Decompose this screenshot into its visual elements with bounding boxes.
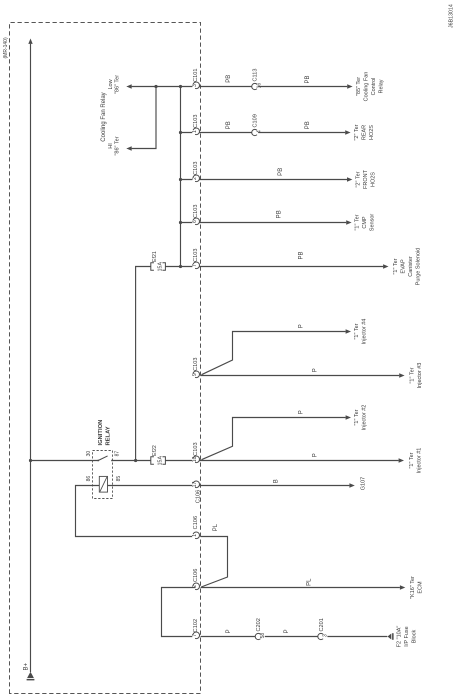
arrow to cooling fan control relay bbox=[347, 84, 352, 88]
wire branch to cooling fan relays / C101 pin 3 bbox=[132, 86, 253, 88]
svg-text:P: P bbox=[313, 368, 319, 372]
svg-text:Purge Solenoid: Purge Solenoid bbox=[415, 248, 421, 286]
svg-text:Ef21: Ef21 bbox=[152, 251, 158, 262]
svg-text:7: 7 bbox=[192, 634, 198, 637]
svg-text:HO2S: HO2S bbox=[370, 172, 376, 187]
wire fuse Ef22 to connector C103 pin 10 bbox=[165, 460, 398, 462]
svg-text:Low: Low bbox=[108, 79, 114, 89]
junction dot bus bbox=[179, 265, 182, 268]
svg-text:6: 6 bbox=[192, 220, 198, 223]
svg-text:C103: C103 bbox=[193, 205, 199, 218]
arrow to CMP sensor bbox=[346, 220, 351, 224]
svg-text:P: P bbox=[226, 629, 232, 633]
svg-text:IGNITION: IGNITION bbox=[98, 420, 104, 446]
svg-text:58: 58 bbox=[260, 633, 266, 639]
wire C102 pin7 down bbox=[201, 636, 388, 638]
svg-text:G107: G107 bbox=[360, 477, 366, 490]
svg-text:"1" Ter: "1" Ter bbox=[393, 258, 399, 274]
svg-text:"1" Ter: "1" Ter bbox=[355, 214, 361, 230]
svg-text:2: 2 bbox=[192, 177, 198, 180]
inline connector C202 pin 58 bbox=[261, 634, 265, 638]
svg-text:3: 3 bbox=[323, 634, 329, 637]
svg-text:C103: C103 bbox=[193, 115, 199, 128]
arrow to rear HO2S bbox=[345, 130, 350, 134]
svg-text:"85" Ter: "85" Ter bbox=[356, 77, 362, 96]
svg-text:1: 1 bbox=[192, 130, 198, 133]
connector C101 pin 3 at boundary bbox=[192, 81, 200, 89]
fuse Ef21 15A bbox=[151, 263, 154, 270]
relay coil symbol bbox=[99, 476, 107, 492]
junction dot bus bbox=[179, 131, 182, 134]
svg-text:C106: C106 bbox=[193, 516, 199, 529]
svg-text:Block: Block bbox=[412, 630, 418, 644]
svg-text:"2" Ter: "2" Ter bbox=[355, 171, 361, 187]
svg-text:85: 85 bbox=[116, 476, 122, 482]
wire branch C103 pin 1 bbox=[181, 132, 253, 134]
svg-text:17: 17 bbox=[192, 482, 198, 488]
svg-text:C106: C106 bbox=[193, 569, 199, 582]
wire link C106 pin2 to C102 pin7 (inside boundary) bbox=[162, 588, 196, 637]
svg-text:REAR: REAR bbox=[361, 125, 367, 140]
svg-text:PB: PB bbox=[277, 210, 283, 218]
svg-text:86: 86 bbox=[86, 476, 92, 482]
svg-text:HI: HI bbox=[108, 143, 114, 149]
wire to injector #3 bbox=[201, 375, 400, 377]
connector C106 pin 1 at boundary bbox=[192, 531, 200, 539]
svg-text:87: 87 bbox=[115, 451, 121, 457]
svg-text:Injector #1: Injector #1 bbox=[417, 448, 423, 474]
svg-text:PB: PB bbox=[226, 121, 232, 129]
svg-text:7: 7 bbox=[192, 264, 198, 267]
wire relay pin 87 to fuse Ef22 bbox=[112, 460, 151, 462]
svg-text:10: 10 bbox=[192, 456, 198, 462]
svg-text:EVAP: EVAP bbox=[400, 259, 406, 274]
svg-text:15A: 15A bbox=[157, 456, 163, 466]
arrow to ECM terminal K16 bbox=[400, 585, 405, 589]
svg-text:C202: C202 bbox=[256, 618, 262, 631]
svg-text:PB: PB bbox=[305, 75, 311, 83]
svg-text:"2" Ter: "2" Ter bbox=[354, 124, 360, 140]
wire spur to injector #2 bbox=[202, 418, 346, 460]
svg-text:C103: C103 bbox=[193, 358, 199, 371]
svg-text:FRONT: FRONT bbox=[363, 169, 369, 189]
svg-text:"86" Ter: "86" Ter bbox=[115, 75, 121, 94]
connector C103 pin 10 at boundary bbox=[192, 455, 200, 463]
arrow to Low "86" terminal bbox=[126, 84, 131, 88]
junction dot bus bbox=[179, 85, 182, 88]
inline connector C113 pin 16 bbox=[257, 84, 261, 88]
svg-text:15A: 15A bbox=[157, 262, 163, 272]
arrow to injector #3 bbox=[399, 373, 404, 377]
svg-text:30: 30 bbox=[86, 451, 92, 457]
svg-text:Ef22: Ef22 bbox=[152, 445, 158, 456]
svg-text:ECM: ECM bbox=[417, 581, 423, 594]
relay IGNITION RELAY dashed box bbox=[93, 451, 113, 499]
svg-text:Sensor: Sensor bbox=[370, 214, 376, 232]
inline connector C109 pin 4 bbox=[257, 130, 261, 134]
svg-text:C103: C103 bbox=[193, 442, 199, 455]
svg-text:P: P bbox=[299, 324, 305, 328]
svg-text:"86" Ter: "86" Ter bbox=[115, 136, 121, 155]
svg-text:PB: PB bbox=[305, 121, 311, 129]
svg-text:C102: C102 bbox=[193, 619, 199, 632]
junction dot at B+ rail bbox=[29, 459, 32, 462]
svg-text:PB: PB bbox=[278, 168, 284, 176]
svg-text:PL: PL bbox=[307, 578, 313, 586]
junction dot bus bbox=[179, 221, 182, 224]
svg-text:F2 "10A": F2 "10A" bbox=[397, 626, 403, 648]
svg-text:"1" Ter: "1" Ter bbox=[354, 323, 360, 339]
svg-text:Canister: Canister bbox=[408, 256, 414, 277]
wire branch C103 pin 2 bbox=[181, 179, 348, 181]
svg-text:P: P bbox=[313, 453, 319, 457]
wire B+ to ignition relay contact (pin 30) bbox=[31, 460, 99, 462]
svg-text:I/P Fuse: I/P Fuse bbox=[404, 626, 410, 646]
arrow to EVAP purge solenoid bbox=[383, 264, 388, 268]
wire below C113 bbox=[258, 86, 347, 88]
connector C103 pin 1 at boundary bbox=[192, 127, 200, 135]
svg-text:B: B bbox=[274, 479, 280, 483]
connector C102 pin 7 at boundary bbox=[192, 631, 200, 639]
svg-text:"K16" Ter: "K16" Ter bbox=[410, 576, 416, 599]
wire B+ horizontal rail bbox=[30, 44, 32, 672]
svg-text:B+: B+ bbox=[24, 662, 30, 670]
connector C103 pin 7 at boundary bbox=[192, 261, 200, 269]
connector C103 pin 6 at boundary bbox=[192, 217, 200, 225]
fuse Ef22 15A bbox=[151, 457, 154, 464]
connector C106 pin 2 at boundary bbox=[192, 582, 200, 590]
svg-text:(MR-140): (MR-140) bbox=[3, 37, 9, 58]
svg-text:9: 9 bbox=[192, 373, 198, 376]
svg-text:RELAY: RELAY bbox=[105, 426, 111, 445]
svg-text:Injector #4: Injector #4 bbox=[362, 319, 368, 345]
svg-text:Injector #2: Injector #2 bbox=[362, 405, 368, 431]
junction dot Ef21 feed link bbox=[134, 459, 137, 462]
arrow to front HO2S bbox=[347, 177, 352, 181]
arrow to HI "86" terminal bbox=[126, 146, 131, 150]
svg-text:C113: C113 bbox=[253, 69, 259, 82]
wire main PB bus (horizontal) bbox=[180, 87, 182, 267]
wire relay coil pin 85 to ground G107 bbox=[108, 485, 350, 487]
inline connector C201 pin 3 bbox=[324, 634, 328, 638]
svg-text:P: P bbox=[284, 629, 290, 633]
wire cooling fan relay HI branch link bbox=[132, 87, 156, 149]
wire branch C103 pin 6 bbox=[181, 222, 347, 224]
svg-text:Injector #3: Injector #3 bbox=[417, 363, 423, 389]
wire Ef21 feed link from ignition-relay line bbox=[136, 267, 151, 461]
connector C103 pin 2 at boundary bbox=[192, 174, 200, 182]
svg-text:C103: C103 bbox=[193, 162, 199, 175]
svg-text:P: P bbox=[299, 410, 305, 414]
svg-text:Cooling Fan Relay: Cooling Fan Relay bbox=[101, 92, 107, 141]
svg-text:C101: C101 bbox=[193, 69, 199, 82]
junction dot HI branch bbox=[154, 85, 157, 88]
wire C106 pin1 jog to C106 pin2 bbox=[201, 537, 228, 588]
harness boundary dashed box (engine compartment) bbox=[10, 23, 201, 694]
svg-text:Relay: Relay bbox=[378, 79, 384, 93]
svg-text:1: 1 bbox=[192, 534, 198, 537]
svg-text:16: 16 bbox=[256, 83, 262, 89]
arrow to ground G107 bbox=[349, 483, 354, 487]
svg-text:Control: Control bbox=[371, 78, 377, 96]
arrow to injector #1 bbox=[399, 458, 404, 462]
arrow to injector #4 bbox=[346, 329, 351, 333]
svg-text:HO2S: HO2S bbox=[369, 125, 375, 140]
wire fuse to bus to connector bbox=[165, 266, 383, 268]
svg-text:PB: PB bbox=[226, 75, 232, 83]
connector C106 pin 17 at boundary bbox=[192, 480, 200, 488]
wire below C109 bbox=[258, 132, 345, 134]
node B+ battery feed symbol bbox=[27, 672, 34, 678]
svg-text:C109: C109 bbox=[253, 114, 259, 127]
wire relay coil pin 86 feed from C106 pin 1 bbox=[76, 486, 196, 537]
svg-text:"1" Ter: "1" Ter bbox=[410, 367, 416, 383]
svg-text:PL: PL bbox=[213, 523, 219, 531]
svg-text:Cooling Fan: Cooling Fan bbox=[363, 72, 369, 102]
svg-text:C106: C106 bbox=[195, 490, 201, 503]
svg-text:CMP: CMP bbox=[362, 216, 368, 229]
svg-text:C201: C201 bbox=[319, 618, 325, 631]
junction dot bus bbox=[179, 178, 182, 181]
relay contact blade 30-87 bbox=[98, 456, 107, 461]
svg-text:"1" Ter: "1" Ter bbox=[409, 452, 415, 468]
node F2 fuse feed symbol bbox=[388, 634, 392, 640]
svg-text:3: 3 bbox=[192, 84, 198, 87]
wire C106 pin2 to ECM bbox=[201, 587, 400, 589]
svg-text:J6B13014: J6B13014 bbox=[448, 4, 453, 28]
svg-text:C103: C103 bbox=[193, 249, 199, 262]
wire spur to injector #4 bbox=[202, 332, 346, 375]
arrow to injector #2 bbox=[346, 415, 351, 419]
svg-text:"1" Ter: "1" Ter bbox=[354, 409, 360, 425]
connector C103 pin 9 at boundary bbox=[192, 370, 200, 378]
arrow B+ rail continues right bbox=[28, 39, 32, 44]
svg-text:PB: PB bbox=[299, 251, 305, 259]
